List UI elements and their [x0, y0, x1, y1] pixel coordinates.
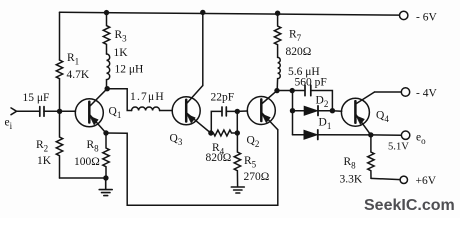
wire to Q3 base	[160, 110, 173, 112]
svg-text:Q4: Q4	[376, 110, 389, 125]
svg-text:Q1: Q1	[109, 106, 122, 121]
svg-text:3.3K: 3.3K	[340, 174, 363, 186]
svg-text:R8: R8	[344, 156, 357, 171]
svg-text:1K: 1K	[37, 155, 52, 167]
svg-text:270Ω: 270Ω	[244, 171, 270, 183]
node Q1 emitter	[103, 130, 108, 135]
svg-text:- 4V: - 4V	[416, 88, 437, 100]
capacitor 560pF	[305, 85, 311, 96]
input arrow e_i	[11, 108, 17, 115]
svg-text:D1: D1	[319, 117, 332, 132]
svg-text:+6V: +6V	[416, 175, 437, 187]
terminal -6V	[400, 11, 408, 19]
inductor 5.6uH	[277, 57, 280, 90]
svg-text:820Ω: 820Ω	[286, 46, 312, 58]
resistor R8 100ohm	[103, 133, 109, 178]
wire input	[17, 110, 40, 112]
wire Q2 collector node	[277, 90, 293, 92]
capacitor 22pF	[222, 107, 226, 116]
wire node A up to 22pF	[211, 111, 222, 133]
node input junction	[57, 109, 62, 114]
capacitor 15uF	[40, 107, 44, 117]
transistor Q3	[172, 86, 211, 134]
transistor Q2	[247, 91, 278, 130]
resistor R2	[56, 111, 62, 178]
node D	[330, 108, 335, 113]
wire Q1 emitter node to loop	[106, 130, 278, 206]
svg-text:100Ω: 100Ω	[74, 156, 100, 168]
svg-text:R8: R8	[87, 139, 100, 154]
svg-text:R3: R3	[115, 29, 128, 44]
node R4 right	[235, 130, 240, 135]
resistor R4	[211, 130, 238, 136]
svg-text:1K: 1K	[114, 47, 129, 59]
diode D2	[304, 106, 318, 116]
svg-text:R7: R7	[289, 29, 302, 44]
wire node B to Q2 base	[237, 110, 247, 112]
inductor 1.7uH	[132, 107, 160, 110]
svg-text:- 6V: - 6V	[416, 12, 437, 24]
node R7 top	[275, 11, 280, 16]
wire Q4 collector to -4V	[375, 91, 402, 93]
node Q1 collector	[105, 86, 110, 91]
node junction dots	[57, 10, 374, 181]
svg-text:5.1V: 5.1V	[388, 141, 409, 152]
transistor Q1	[75, 89, 107, 133]
wire left rail lower	[59, 79, 61, 112]
wire 560pF to corner	[311, 91, 333, 111]
svg-text:15 μF: 15 μF	[23, 92, 50, 104]
terminal e_o	[401, 131, 409, 139]
wire top supply rail	[60, 12, 400, 15]
ground symbol under R5	[231, 187, 244, 193]
wire D1 to e_o node	[318, 134, 371, 136]
svg-text:12 μH: 12 μH	[115, 64, 144, 76]
wire bottom left rail	[60, 177, 107, 179]
resistor R1	[56, 60, 62, 79]
svg-text:SeekIC.com: SeekIC.com	[364, 197, 455, 214]
inductor 12uH	[107, 54, 110, 89]
node R3 top	[104, 10, 109, 15]
wire cap to Q1 base	[44, 110, 75, 112]
node Q3 collector top	[200, 10, 205, 15]
wire node B vertical	[236, 111, 238, 133]
node C mid	[290, 108, 295, 113]
wire 22pF to node B	[226, 110, 237, 112]
terminal -4V	[401, 88, 409, 96]
wire e_o	[371, 134, 402, 136]
svg-text:R5: R5	[244, 155, 257, 170]
svg-text:ei: ei	[5, 117, 13, 132]
resistor R5	[234, 133, 240, 187]
resistor R8 3.3K	[368, 135, 374, 179]
svg-text:R2: R2	[36, 139, 48, 154]
wire node D to Q4 base	[332, 110, 341, 113]
wire Q1 collector node to corner	[107, 89, 132, 111]
wire to D2	[293, 110, 305, 112]
diode D1	[304, 130, 318, 140]
wire left rail upper	[59, 12, 61, 60]
node Q3 emitter	[208, 130, 213, 135]
resistor R3	[103, 13, 109, 54]
svg-text:1.7μH: 1.7μH	[130, 91, 165, 103]
transistor Q4	[341, 92, 374, 135]
svg-text:Q3: Q3	[170, 133, 183, 148]
svg-text:560 pF: 560 pF	[295, 77, 327, 89]
svg-text:820Ω: 820Ω	[206, 152, 232, 164]
wire Q3 collector to top rail	[202, 12, 204, 85]
svg-text:4.7K: 4.7K	[67, 69, 90, 81]
wire D2 to node D	[318, 110, 332, 112]
resistor R7	[274, 13, 280, 57]
svg-text:eo: eo	[416, 132, 426, 147]
wire to 560pF	[293, 90, 305, 92]
svg-text:R1: R1	[67, 52, 79, 67]
node 22pF right	[235, 109, 240, 114]
wire node C vertical	[292, 91, 294, 135]
node e_o	[368, 132, 373, 137]
node R8 bottom	[103, 175, 108, 180]
svg-text:Q2: Q2	[247, 135, 260, 150]
ground symbol left	[99, 178, 112, 196]
node Q2 collector	[274, 88, 279, 93]
wire to D1	[293, 134, 304, 136]
node C top	[290, 88, 295, 93]
wire to +6V	[371, 178, 400, 179]
terminal +6V	[400, 176, 407, 183]
svg-text:22pF: 22pF	[211, 92, 235, 104]
